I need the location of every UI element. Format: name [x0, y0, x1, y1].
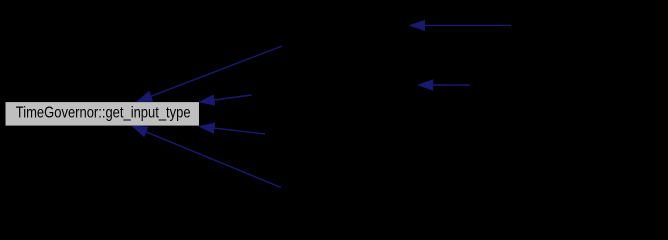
svg-text:TimeGovernor::get_input_type: TimeGovernor::get_input_type	[16, 104, 191, 121]
edge D wire: caller(mid-bottom) to TimeGovernor::get_input_type	[146, 132, 281, 188]
arrowhead of edge C	[200, 123, 215, 133]
edge E wire: caller(right-top) to caller(mid-top)	[425, 24, 512, 26]
arrowhead of edge B	[200, 95, 215, 105]
arrowhead of edge A	[137, 92, 152, 102]
edge B wire: caller(mid) to TimeGovernor::get_input_type	[214, 95, 252, 100]
arrowhead of edge F	[418, 80, 432, 90]
arrowhead of edge E	[410, 20, 424, 30]
arrowhead of edge D	[133, 126, 148, 136]
edge A wire: caller(mid-top) to TimeGovernor::get_input_type	[151, 46, 282, 96]
edge C wire: caller(mid) to TimeGovernor::get_input_type	[214, 128, 265, 134]
edge F wire: caller(right) to caller(mid)	[433, 84, 470, 86]
node TimeGovernor::get_input_type (current node, grey fill, black border)	[5, 102, 200, 127]
